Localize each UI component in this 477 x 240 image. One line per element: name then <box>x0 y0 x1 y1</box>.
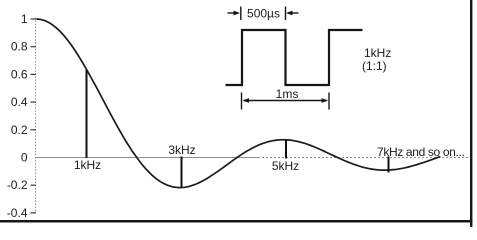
svg-text:-0.2: -0.2 <box>7 178 28 192</box>
page border bottom edge <box>0 220 472 223</box>
y-axis (dotted vertical) <box>35 18 37 214</box>
svg-text:0.4: 0.4 <box>11 95 28 109</box>
x-axis solid left part <box>36 157 259 159</box>
y-axis tick 0.6 <box>31 73 37 75</box>
svg-text:(1:1): (1:1) <box>362 59 387 73</box>
svg-text:1kHz: 1kHz <box>364 46 391 60</box>
y-axis tick 0.8 <box>31 46 37 48</box>
y-axis tick 0.4 <box>31 101 37 103</box>
y-axis tick -0.4 <box>31 212 37 214</box>
harmonic bar 5kHz <box>285 140 287 159</box>
svg-text:500µs: 500µs <box>247 7 280 21</box>
page border right edge <box>470 0 472 227</box>
svg-text:1kHz: 1kHz <box>74 158 101 172</box>
svg-text:1: 1 <box>21 12 28 26</box>
1ms dim double arrow <box>244 100 328 102</box>
y-axis tick 0.2 <box>31 129 37 131</box>
500us dim right arrow <box>288 12 299 14</box>
svg-text:7kHz and so on...: 7kHz and so on... <box>377 145 464 159</box>
x-axis dotted right part <box>258 157 468 159</box>
500us dim left delimiter <box>240 7 242 21</box>
inset square wave <box>226 30 363 85</box>
svg-text:0: 0 <box>21 151 28 165</box>
harmonic bar 3kHz <box>181 157 183 188</box>
500us dim right delimiter <box>285 7 287 21</box>
500us dim left arrow <box>228 12 239 14</box>
svg-text:-0.4: -0.4 <box>7 206 28 220</box>
svg-text:5kHz: 5kHz <box>272 159 299 173</box>
y-axis tick -0.2 <box>31 184 37 186</box>
harmonic bar 7kHz <box>388 157 390 173</box>
harmonic bar 1kHz <box>86 70 88 159</box>
svg-text:0.2: 0.2 <box>11 123 28 137</box>
y-axis tick 1.0 <box>31 18 37 20</box>
sinc envelope curve <box>36 19 440 188</box>
svg-text:1ms: 1ms <box>276 87 299 101</box>
svg-text:3kHz: 3kHz <box>168 143 195 157</box>
1ms dim left delimiter <box>241 93 243 110</box>
1ms dim right delimiter <box>328 93 330 110</box>
svg-text:0.6: 0.6 <box>11 67 28 81</box>
svg-text:0.8: 0.8 <box>11 40 28 54</box>
